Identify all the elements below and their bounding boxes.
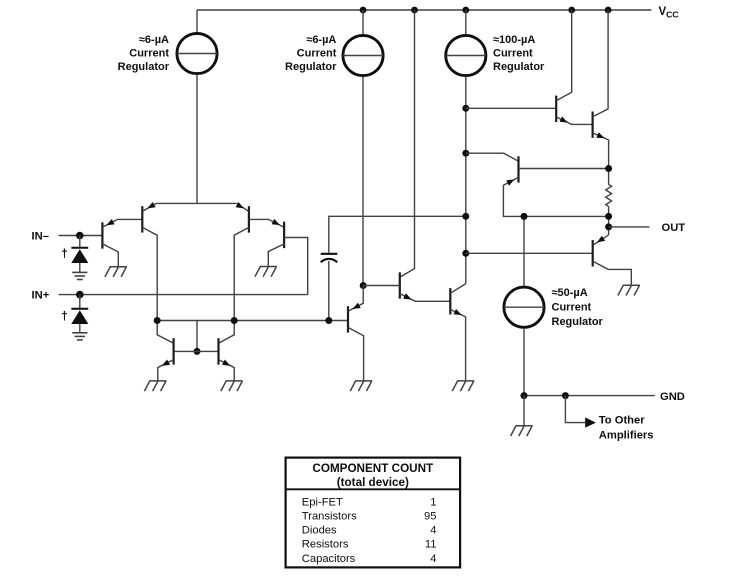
svg-text:GND: GND bbox=[660, 391, 685, 403]
wire: IN- to clamp diode D1 bbox=[79, 236, 81, 248]
transistor Q2 (PNP input pair left) bar bbox=[141, 206, 143, 232]
table header divider bbox=[286, 488, 460, 490]
diode D1 (input clamp) bbox=[71, 248, 88, 263]
wire: mirror base line bbox=[174, 350, 219, 352]
wire: VCC to 6uA regulator 2 bbox=[362, 10, 364, 35]
ground under Q7 bbox=[452, 381, 474, 391]
wire: 50uA regulator to GND rail bbox=[523, 328, 525, 396]
current regulator 2 (~6uA) bbox=[343, 35, 383, 75]
svg-text:IN–: IN– bbox=[32, 230, 49, 242]
wire: VCC to 100uA regulator bbox=[465, 10, 467, 35]
node: Q10 emitter / 50uA regulator junction bbox=[521, 213, 528, 220]
svg-text:Resistors: Resistors bbox=[302, 539, 349, 551]
node: Q2 collector / mirror left bbox=[154, 317, 161, 324]
wire: OUT lead bbox=[609, 226, 650, 228]
transistor Q11 (PNP output) bar bbox=[592, 240, 594, 266]
Q6m emitter to ground bbox=[219, 360, 235, 381]
svg-text:Regulator: Regulator bbox=[493, 61, 545, 73]
wire: Q5 base from regulator2 node bbox=[363, 285, 400, 287]
Q9 emitter to resistor R1 bbox=[593, 133, 609, 185]
Q9 collector to VCC bbox=[593, 10, 609, 117]
Q6 emitter arrow (PNP) bbox=[352, 303, 360, 309]
wire: GND rail bbox=[524, 395, 655, 397]
Q5 emitter arrow (NPN) bbox=[403, 293, 411, 299]
component count table frame bbox=[286, 458, 461, 568]
Q2 emitter diagonal to tail bbox=[142, 203, 156, 211]
wire: IN- lead bbox=[59, 235, 103, 237]
Q1 emitter to Q2 base wire bbox=[102, 219, 142, 227]
Q8 emitter arrow (NPN) bbox=[560, 117, 568, 123]
wire: mirror top rail to Q6 base bbox=[157, 320, 348, 322]
ground under Q6m bbox=[221, 381, 243, 391]
svg-text:4: 4 bbox=[430, 525, 436, 537]
ground under Q5m bbox=[144, 381, 166, 391]
node: regulator2/Q5 base/Q6 emitter junction bbox=[360, 282, 367, 289]
Q4 collector to ground bbox=[268, 244, 284, 266]
Q7 emitter arrow (NPN) bbox=[454, 309, 462, 315]
Q6 emitter wire from regulator2 node bbox=[348, 286, 363, 312]
transistor Q10 (PNP) bar bbox=[517, 156, 519, 182]
Q11 emitter from OUT node bbox=[593, 235, 609, 245]
transistor Q9 (NPN darlington 2) bar bbox=[591, 112, 593, 138]
wire: 100uA regulator down gain-node bus bbox=[465, 77, 467, 284]
svg-text:1: 1 bbox=[430, 496, 436, 508]
transistor Q6 (PNP, mirror cascode) bar bbox=[347, 306, 349, 332]
wire: D1 anode to earth ground bbox=[79, 263, 81, 272]
current regulator 1 (~6uA) bbox=[177, 33, 217, 73]
transistor Q7 (NPN) bar bbox=[449, 288, 451, 314]
wire: D2 anode to earth ground bbox=[79, 324, 81, 333]
node: IN- junction bbox=[76, 232, 84, 240]
node: GND rail left junction bbox=[521, 392, 528, 399]
earth ground under D2 bbox=[72, 333, 87, 340]
node: R1 bottom junction bbox=[605, 213, 612, 220]
earth ground under D1 bbox=[72, 272, 87, 279]
wire: VCC drop to Q5 collector bbox=[400, 10, 414, 277]
svg-text:95: 95 bbox=[424, 511, 436, 523]
Q10 emitter down to 50uA node bbox=[503, 177, 608, 216]
Q9 emitter arrow (NPN) bbox=[596, 132, 604, 138]
svg-text:≈6-µA: ≈6-µA bbox=[139, 34, 169, 46]
ground under Q6 bbox=[350, 381, 372, 391]
wire: 50uA regulator top bbox=[523, 216, 525, 286]
svg-text:OUT: OUT bbox=[662, 222, 686, 234]
svg-text:Capacitors: Capacitors bbox=[302, 553, 356, 565]
svg-text:Regulator: Regulator bbox=[118, 61, 170, 73]
Q7 collector to gain-node bus bbox=[450, 284, 466, 294]
Q8 collector to VCC bbox=[556, 10, 572, 101]
svg-text:(total device): (total device) bbox=[337, 476, 409, 489]
transistor Q4 (PNP, IN+ buffer) bar bbox=[283, 222, 285, 248]
svg-text:IN+: IN+ bbox=[32, 290, 50, 302]
Q5 emitter to Q7 base bbox=[400, 294, 451, 302]
svg-text:Amplifiers: Amplifiers bbox=[599, 430, 654, 442]
wire: VCC rail bbox=[197, 9, 652, 11]
resistor R1 bbox=[606, 185, 612, 207]
Q4 emitter arrow (PNP) bbox=[272, 219, 280, 225]
Q2 collector down to mirror node bbox=[142, 227, 173, 343]
Q3 emitter arrow (PNP) bbox=[236, 202, 244, 208]
diode D2 (input clamp) bbox=[71, 309, 88, 324]
capacitor C1 top wire from gain node bbox=[329, 216, 466, 252]
Q7 emitter to ground bbox=[450, 309, 465, 380]
Q10 emitter arrow (PNP) bbox=[506, 179, 514, 185]
node: to-other-amplifiers junction bbox=[562, 392, 569, 399]
Q3 collector down to mirror node bbox=[219, 227, 249, 343]
ground under Q11 bbox=[618, 285, 640, 295]
node: mirror base junction bbox=[194, 348, 201, 355]
node: gain bus to Q11 base bbox=[462, 250, 469, 257]
Q5m emitter to ground bbox=[158, 360, 174, 381]
transistor Q1 (PNP, IN- buffer) bar bbox=[101, 222, 103, 248]
svg-text:To Other: To Other bbox=[599, 414, 645, 426]
wire: mirror diode tie-down bbox=[196, 321, 198, 352]
node: Q3 collector / mirror right bbox=[231, 317, 238, 324]
arrowhead: to other amplifiers bbox=[585, 417, 596, 427]
Q6 collector to ground bbox=[348, 327, 364, 380]
svg-text:≈6-µA: ≈6-µA bbox=[306, 34, 336, 46]
ground under GND rail bbox=[511, 426, 533, 436]
Q1 collector to ground bbox=[102, 244, 118, 267]
wire: VCC to 6uA regulator 1 bbox=[196, 10, 198, 33]
current regulator 4 (~50uA) bbox=[504, 287, 544, 327]
wire: regulator 2 down to node at Q6 emitter bbox=[362, 77, 364, 286]
node: C1 bottom junction bbox=[325, 317, 332, 324]
Q3 base wire to Q4 emitter bbox=[249, 219, 284, 227]
wire: input-stage tail bbox=[156, 202, 236, 204]
transistor Q5 (NPN) bar bbox=[399, 272, 401, 298]
node: OUT junction bbox=[605, 223, 612, 230]
Q2 emitter arrow (PNP) bbox=[147, 202, 155, 208]
Q10 base wire to R1 top node bbox=[519, 168, 609, 170]
Q11 emitter arrow (PNP) bbox=[597, 236, 605, 243]
svg-text:≈100-µA: ≈100-µA bbox=[493, 34, 535, 46]
svg-text:Current: Current bbox=[552, 302, 592, 314]
Q8 emitter to Q9 base bbox=[556, 117, 592, 125]
node: gain bus to Q10 collector bbox=[462, 150, 469, 157]
svg-text:Current: Current bbox=[297, 48, 337, 60]
node: gain bus to C1 line bbox=[462, 213, 469, 220]
wire: regulator 1 to input tail bbox=[196, 75, 198, 204]
wire: GND stub to ground bbox=[523, 396, 525, 426]
Q6m emitter arrow (NPN) bbox=[222, 360, 230, 366]
svg-text:Regulator: Regulator bbox=[285, 61, 337, 73]
Q3 emitter diagonal to tail bbox=[237, 203, 249, 211]
transistor Q3 (PNP input pair right) bar bbox=[248, 206, 250, 232]
svg-text:†: † bbox=[61, 309, 68, 323]
wire: IN+ to clamp diode D2 bbox=[79, 295, 81, 309]
wire: IN+ lead bbox=[59, 294, 308, 296]
transistor Q6m (NPN mirror right) bar bbox=[217, 338, 219, 364]
svg-text:Regulator: Regulator bbox=[552, 316, 604, 328]
node: VCC rail junction dots bbox=[360, 7, 367, 14]
svg-text:Epi-FET: Epi-FET bbox=[302, 496, 343, 508]
ground under Q4 bbox=[255, 267, 277, 277]
capacitor C1 plates bbox=[321, 254, 338, 262]
transistor Q5m (NPN mirror left) bar bbox=[173, 338, 175, 364]
svg-text:†: † bbox=[61, 246, 68, 260]
node: IN+ junction bbox=[76, 291, 84, 299]
wire: Q8 base bbox=[466, 107, 556, 109]
Q5m emitter arrow (NPN) bbox=[162, 360, 170, 366]
current regulator 3 (~100uA) bbox=[446, 35, 486, 75]
svg-text:Transistors: Transistors bbox=[302, 511, 357, 523]
svg-text:4: 4 bbox=[430, 553, 436, 565]
svg-text:11: 11 bbox=[425, 539, 437, 551]
svg-text:Diodes: Diodes bbox=[302, 525, 337, 537]
node: gain bus to Q8 base bbox=[462, 105, 469, 112]
svg-text:Current: Current bbox=[493, 48, 533, 60]
wire: Q10 collector bbox=[466, 153, 519, 161]
capacitor C1 bottom wire to mirror rail bbox=[328, 261, 330, 321]
svg-text:≈50-µA: ≈50-µA bbox=[552, 287, 588, 299]
Q4 base wire to IN+ line bbox=[284, 238, 308, 295]
transistor Q8 (NPN darlington 1) bar bbox=[555, 96, 557, 122]
svg-text:COMPONENT COUNT: COMPONENT COUNT bbox=[312, 462, 434, 475]
ground under Q1 bbox=[105, 267, 127, 277]
node: R1 top / Q9 emitter / Q10 base bbox=[605, 165, 612, 172]
Q11 collector to ground bbox=[593, 261, 632, 285]
Q1 emitter arrow (PNP) bbox=[106, 219, 114, 225]
svg-text:Current: Current bbox=[129, 48, 169, 60]
wire: R1 bottom to OUT node bbox=[608, 206, 610, 235]
wire: Q11 base bbox=[466, 252, 593, 254]
wire: to other amplifiers tap bbox=[565, 396, 585, 423]
